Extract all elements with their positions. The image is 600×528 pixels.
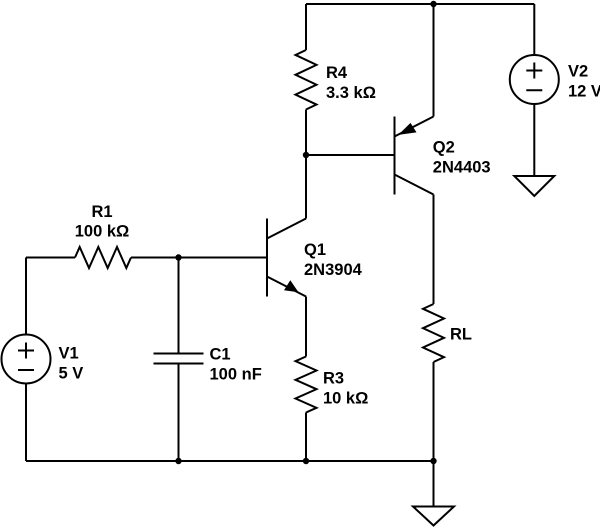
svg-text:10 kΩ: 10 kΩ <box>323 390 368 408</box>
ground (V2) <box>514 176 554 196</box>
label R3 <box>323 370 368 408</box>
node R3 bottom junction <box>303 458 309 464</box>
svg-text:2N3904: 2N3904 <box>304 261 363 279</box>
label V2 <box>568 63 600 101</box>
svg-text:V1: V1 <box>59 345 79 363</box>
voltage source V2 <box>510 55 559 104</box>
node RL bottom junction <box>430 458 436 464</box>
svg-text:12 V: 12 V <box>568 83 600 101</box>
wire V2 top lead <box>533 4 535 55</box>
node collector junction <box>303 152 309 158</box>
wire Q2 collector down to RL <box>433 195 435 305</box>
label V1 <box>59 345 84 383</box>
wire V1 top lead <box>25 258 27 335</box>
svg-text:R1: R1 <box>91 203 112 221</box>
node base junction <box>175 254 181 260</box>
wire V2 to ground <box>533 104 535 176</box>
node C1 bottom junction <box>175 458 181 464</box>
svg-text:100 kΩ: 100 kΩ <box>75 223 130 241</box>
svg-text:2N4403: 2N4403 <box>433 159 491 177</box>
svg-text:R3: R3 <box>323 370 344 388</box>
resistor R3 <box>296 357 317 413</box>
label Q1 <box>304 241 363 279</box>
wire C1 top lead <box>178 258 180 354</box>
wire R1 to Q1 base <box>131 257 267 259</box>
wire R1 left lead from V1 <box>26 257 75 259</box>
label Q2 <box>433 139 491 177</box>
wire R4 bottom to node <box>305 110 307 156</box>
svg-text:C1: C1 <box>210 346 231 364</box>
wire R4 top lead <box>305 4 307 50</box>
capacitor C1 <box>154 354 204 364</box>
wire Q1 emitter down to R3 <box>305 297 307 357</box>
label C1 <box>210 346 262 384</box>
voltage source V1 <box>2 335 51 384</box>
resistor R4 <box>296 50 317 110</box>
wire R3 bottom lead <box>305 413 307 462</box>
wire top rail <box>306 3 534 5</box>
svg-text:Q2: Q2 <box>433 139 455 157</box>
svg-text:RL: RL <box>450 326 472 344</box>
svg-text:V2: V2 <box>568 63 588 81</box>
transistor Q2 <box>395 117 434 195</box>
wire RL bottom lead <box>433 362 435 461</box>
label R1 <box>75 203 130 241</box>
wire V1 bottom lead <box>25 384 27 462</box>
resistor RL <box>423 304 444 362</box>
resistor R1 <box>75 247 131 268</box>
label RL <box>450 326 472 344</box>
svg-text:Q1: Q1 <box>304 241 326 259</box>
wire bottom rail <box>26 460 434 462</box>
svg-text:100 nF: 100 nF <box>210 366 262 384</box>
svg-text:3.3 kΩ: 3.3 kΩ <box>326 84 376 102</box>
transistor Q1 <box>267 219 306 297</box>
label R4 <box>326 64 376 102</box>
wire Q2 base wire <box>306 154 395 156</box>
wire C1 bottom lead <box>178 364 180 462</box>
svg-text:5 V: 5 V <box>59 365 84 383</box>
wire Q2 emitter up to rail <box>433 4 435 117</box>
wire ground stem <box>433 461 435 507</box>
ground (bottom) <box>413 507 454 526</box>
svg-text:R4: R4 <box>326 64 348 82</box>
wire node to Q1 collector <box>305 155 307 219</box>
node top junction <box>430 1 436 7</box>
